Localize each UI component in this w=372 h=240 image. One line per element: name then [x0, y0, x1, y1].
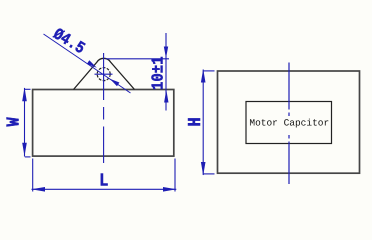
dimension line 10±1 — [165, 33, 167, 111]
L dimension line — [32, 188, 177, 190]
capacitor body (side view) — [33, 90, 174, 157]
L arrow right — [163, 187, 177, 192]
leader arrowhead lower — [110, 79, 120, 86]
H bottom extension line — [203, 173, 214, 175]
arrow up to body top — [164, 90, 168, 103]
svg-text:H: H — [186, 117, 206, 126]
arrow down to bracket top — [164, 47, 168, 59]
diameter leader line — [44, 34, 131, 93]
hole horizontal centerline — [95, 73, 113, 75]
vertical centerline (front view) — [288, 63, 290, 185]
svg-text:Ø4.5: Ø4.5 — [49, 25, 88, 58]
H top extension line — [203, 70, 214, 72]
bracket hole — [97, 68, 110, 81]
W dimension line — [24, 88, 26, 157]
L left extension line — [32, 159, 34, 192]
L right extension line — [174, 159, 176, 192]
capacitor body (front view) — [218, 71, 360, 173]
svg-text:W: W — [5, 117, 25, 126]
mounting bracket — [74, 58, 135, 89]
H arrow up — [201, 69, 206, 83]
H arrow down — [201, 162, 206, 176]
W arrow down — [22, 143, 27, 157]
svg-text:10±1: 10±1 — [149, 56, 168, 90]
vertical centerline (side view) — [103, 53, 105, 163]
leader arrowhead upper — [87, 60, 97, 67]
svg-text:L: L — [99, 172, 108, 192]
H dimension line — [202, 70, 204, 176]
L arrow left — [31, 187, 45, 192]
bracket top extension line — [106, 58, 170, 60]
W top extension line — [25, 88, 31, 90]
W arrow up — [22, 87, 27, 101]
nameplate rectangle — [246, 102, 332, 144]
svg-text:Motor Capcitor: Motor Capcitor — [249, 118, 329, 129]
W bottom extension line — [25, 156, 31, 158]
